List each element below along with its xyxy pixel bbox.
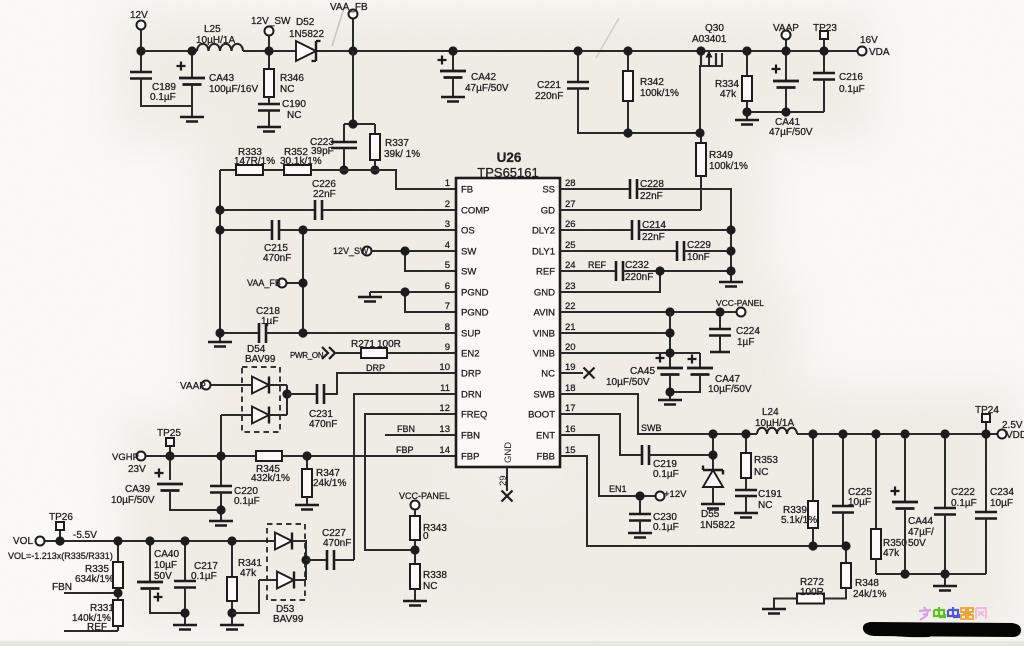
- svg-text:1N5822: 1N5822: [289, 29, 324, 40]
- svg-text:SUP: SUP: [461, 329, 481, 340]
- svg-text:TP24: TP24: [975, 405, 999, 416]
- svg-text:100k/1%: 100k/1%: [709, 161, 748, 172]
- svg-text:TP26: TP26: [49, 512, 73, 523]
- svg-text:1µF: 1µF: [261, 316, 278, 327]
- svg-text:ENT: ENT: [536, 431, 555, 442]
- svg-text:100µF/16V: 100µF/16V: [209, 84, 258, 95]
- svg-text:23: 23: [565, 281, 576, 292]
- svg-text:47k: 47k: [883, 548, 900, 559]
- svg-text:0.1µF: 0.1µF: [150, 92, 176, 103]
- svg-text:GND: GND: [503, 442, 514, 463]
- svg-text:FBN: FBN: [461, 431, 480, 442]
- svg-text:8: 8: [445, 322, 450, 333]
- svg-text:12V_SW: 12V_SW: [251, 16, 291, 27]
- svg-text:BAV99: BAV99: [273, 614, 304, 625]
- svg-text:47k: 47k: [240, 568, 257, 579]
- svg-text:22nF: 22nF: [640, 191, 663, 202]
- svg-text:L24: L24: [762, 407, 779, 418]
- svg-text:PGND: PGND: [461, 308, 489, 319]
- svg-text:0.1µF: 0.1µF: [191, 571, 217, 582]
- svg-text:10µF/50V: 10µF/50V: [111, 495, 155, 506]
- svg-text:C190: C190: [282, 99, 306, 110]
- svg-text:VDD: VDD: [1006, 430, 1024, 441]
- svg-text:22nF: 22nF: [313, 189, 336, 200]
- svg-text:VAA_FB: VAA_FB: [330, 2, 368, 13]
- svg-text:9: 9: [445, 342, 450, 353]
- svg-text:SS: SS: [542, 185, 555, 196]
- svg-text:0.1µF: 0.1µF: [234, 496, 260, 507]
- svg-text:EN1: EN1: [609, 484, 627, 494]
- svg-text:VAA_FB: VAA_FB: [247, 278, 281, 288]
- svg-text:SWB: SWB: [641, 423, 662, 433]
- svg-text:50V: 50V: [908, 538, 926, 549]
- svg-text:SWB: SWB: [533, 390, 555, 401]
- svg-text:R348: R348: [855, 578, 879, 589]
- svg-text:R349: R349: [709, 150, 733, 161]
- svg-text:FBP: FBP: [461, 452, 479, 463]
- svg-text:TPS65161: TPS65161: [477, 165, 538, 180]
- svg-text:FBN: FBN: [397, 424, 415, 434]
- svg-text:R271: R271: [351, 339, 375, 350]
- svg-text:10µH/1A: 10µH/1A: [196, 35, 235, 46]
- svg-text:0.1µF: 0.1µF: [653, 522, 679, 533]
- svg-text:FBN: FBN: [52, 582, 72, 593]
- svg-text:18: 18: [565, 383, 576, 394]
- svg-text:24: 24: [565, 260, 576, 271]
- svg-text:-5.5V: -5.5V: [73, 530, 97, 541]
- svg-text:47k: 47k: [720, 89, 737, 100]
- svg-text:10µF/50V: 10µF/50V: [606, 377, 650, 388]
- svg-text:REF: REF: [87, 622, 107, 633]
- svg-text:FB: FB: [461, 185, 473, 196]
- svg-text:47µF/: 47µF/: [908, 527, 934, 538]
- svg-text:BOOT: BOOT: [528, 410, 555, 421]
- svg-text:28: 28: [565, 178, 576, 189]
- svg-text:PWR_ON: PWR_ON: [290, 351, 324, 360]
- svg-text:C222: C222: [951, 487, 975, 498]
- svg-text:5.1k/1%: 5.1k/1%: [781, 515, 817, 526]
- svg-text:C224: C224: [736, 326, 760, 337]
- svg-text:CA42: CA42: [471, 72, 496, 83]
- svg-text:VCC-PANEL: VCC-PANEL: [399, 491, 450, 501]
- svg-text:C221: C221: [537, 80, 561, 91]
- svg-text:SW: SW: [461, 267, 476, 278]
- svg-text:29: 29: [498, 475, 509, 486]
- svg-text:NC: NC: [287, 110, 301, 121]
- svg-text:1: 1: [445, 178, 450, 189]
- svg-text:12V_SW: 12V_SW: [333, 246, 369, 256]
- svg-text:DLY2: DLY2: [532, 226, 555, 237]
- svg-text:20: 20: [565, 342, 576, 353]
- svg-text:PGND: PGND: [461, 288, 489, 299]
- svg-text:CA40: CA40: [154, 549, 179, 560]
- svg-text:AVIN: AVIN: [534, 308, 556, 319]
- svg-text:C229: C229: [687, 240, 711, 251]
- svg-text:14: 14: [439, 445, 450, 456]
- svg-text:R353: R353: [754, 455, 778, 466]
- svg-text:R338: R338: [423, 570, 447, 581]
- svg-text:26: 26: [565, 219, 576, 230]
- svg-text:DLY1: DLY1: [532, 247, 555, 258]
- svg-text:147R/1%: 147R/1%: [234, 156, 275, 167]
- svg-text:4: 4: [445, 240, 450, 251]
- svg-text:30.1k/1%: 30.1k/1%: [280, 156, 322, 167]
- svg-text:16: 16: [565, 424, 576, 435]
- svg-text:FREQ: FREQ: [461, 410, 487, 421]
- svg-text:VGHP: VGHP: [112, 452, 139, 463]
- svg-text:C214: C214: [642, 220, 666, 231]
- svg-text:SW: SW: [461, 247, 476, 258]
- svg-text:470nF: 470nF: [263, 253, 291, 264]
- svg-text:3: 3: [445, 219, 450, 230]
- svg-text:REF: REF: [588, 260, 607, 270]
- svg-text:470nF: 470nF: [309, 419, 337, 430]
- svg-text:0.1µF: 0.1µF: [653, 469, 679, 480]
- svg-text:U26: U26: [497, 150, 522, 165]
- svg-text:L25: L25: [204, 24, 221, 35]
- svg-text:VCC-PANEL: VCC-PANEL: [716, 298, 764, 308]
- svg-text:CA45: CA45: [630, 366, 655, 377]
- svg-text:R346: R346: [280, 73, 304, 84]
- svg-text:VOL: VOL: [13, 536, 33, 547]
- svg-text:25: 25: [565, 240, 576, 251]
- svg-text:0: 0: [423, 531, 429, 542]
- svg-text:VINB: VINB: [533, 349, 555, 360]
- svg-text:DRP: DRP: [461, 369, 481, 380]
- svg-text:C228: C228: [640, 179, 664, 190]
- svg-text:39k/ 1%: 39k/ 1%: [384, 149, 420, 160]
- svg-text:13: 13: [439, 424, 450, 435]
- svg-text:0.1µF: 0.1µF: [951, 498, 977, 509]
- svg-text:VAAP: VAAP: [773, 23, 799, 34]
- svg-text:1µF: 1µF: [737, 337, 754, 348]
- svg-text:GND: GND: [534, 288, 555, 299]
- svg-text:27: 27: [565, 199, 576, 210]
- svg-text:10µF: 10µF: [990, 498, 1013, 509]
- svg-text:CA43: CA43: [209, 73, 234, 84]
- svg-text:NC: NC: [758, 500, 772, 511]
- svg-text:R342: R342: [640, 77, 664, 88]
- svg-text:D55: D55: [701, 509, 720, 520]
- svg-text:R337: R337: [385, 138, 409, 149]
- svg-text:5: 5: [445, 260, 450, 271]
- svg-text:CA39: CA39: [125, 484, 150, 495]
- svg-text:10nF: 10nF: [687, 252, 710, 263]
- svg-text:GD: GD: [541, 206, 555, 217]
- svg-text:19: 19: [565, 362, 576, 373]
- svg-text:23V: 23V: [128, 464, 146, 475]
- svg-text:EN2: EN2: [461, 349, 479, 360]
- svg-text:Q30: Q30: [705, 23, 724, 34]
- svg-text:15: 15: [565, 445, 576, 456]
- svg-text:10µH/1A: 10µH/1A: [755, 418, 794, 429]
- svg-text:NC: NC: [754, 467, 768, 478]
- svg-text:FBP: FBP: [396, 445, 414, 455]
- svg-text:10: 10: [439, 362, 450, 373]
- svg-text:12: 12: [439, 403, 450, 414]
- svg-text:10µF/50V: 10µF/50V: [708, 384, 752, 395]
- svg-text:47µF/50V: 47µF/50V: [769, 127, 813, 138]
- svg-text:2: 2: [445, 199, 450, 210]
- svg-text:10µF: 10µF: [848, 497, 871, 508]
- svg-text:21: 21: [565, 322, 576, 333]
- svg-text:VOL=-1.213x(R335/R331): VOL=-1.213x(R335/R331): [8, 551, 113, 561]
- svg-text:100R: 100R: [800, 587, 824, 598]
- svg-text:DRP: DRP: [366, 363, 385, 373]
- svg-text:C191: C191: [758, 489, 782, 500]
- svg-text:OS: OS: [461, 226, 475, 237]
- svg-text:COMP: COMP: [461, 206, 490, 217]
- svg-text:FBB: FBB: [537, 452, 555, 463]
- svg-text:C232: C232: [625, 260, 649, 271]
- svg-text:17: 17: [565, 403, 576, 414]
- svg-text:47µF/50V: 47µF/50V: [465, 83, 509, 94]
- svg-text:VAAP: VAAP: [180, 381, 206, 392]
- svg-text:C216: C216: [839, 72, 863, 83]
- svg-text:50V: 50V: [154, 571, 172, 582]
- svg-text:+12V: +12V: [664, 489, 687, 500]
- svg-text:C234: C234: [990, 487, 1014, 498]
- svg-text:NC: NC: [423, 581, 437, 592]
- svg-text:BAV99: BAV99: [245, 354, 276, 365]
- svg-text:REF: REF: [536, 267, 555, 278]
- svg-text:DRN: DRN: [461, 390, 482, 401]
- svg-text:16V: 16V: [860, 35, 878, 46]
- svg-text:TP25: TP25: [157, 428, 181, 439]
- svg-text:1N5822: 1N5822: [700, 520, 735, 531]
- svg-text:11: 11: [440, 383, 450, 394]
- svg-text:7: 7: [445, 301, 450, 312]
- svg-text:10µF: 10µF: [154, 560, 177, 571]
- svg-text:TP23: TP23: [813, 23, 837, 34]
- svg-text:0.1µF: 0.1µF: [839, 84, 865, 95]
- svg-text:100k/1%: 100k/1%: [640, 88, 679, 99]
- svg-text:12V: 12V: [130, 10, 148, 21]
- svg-text:220nF: 220nF: [535, 91, 563, 102]
- svg-text:VINB: VINB: [533, 329, 555, 340]
- svg-text:NC: NC: [280, 84, 294, 95]
- svg-text:VDA: VDA: [869, 47, 890, 58]
- svg-text:100R: 100R: [377, 339, 401, 350]
- svg-text:24k/1%: 24k/1%: [853, 589, 886, 600]
- svg-text:24k/1%: 24k/1%: [313, 478, 346, 489]
- svg-text:634k/1%: 634k/1%: [75, 574, 114, 585]
- svg-text:NC: NC: [541, 369, 555, 380]
- svg-text:A03401: A03401: [692, 34, 727, 45]
- svg-text:22nF: 22nF: [642, 232, 665, 243]
- svg-text:432k/1%: 432k/1%: [251, 473, 290, 484]
- svg-text:CA44: CA44: [908, 516, 933, 527]
- svg-text:22: 22: [565, 301, 576, 312]
- svg-text:D52: D52: [296, 17, 315, 28]
- svg-text:220nF: 220nF: [625, 272, 653, 283]
- svg-text:470nF: 470nF: [323, 538, 351, 549]
- svg-text:6: 6: [445, 281, 450, 292]
